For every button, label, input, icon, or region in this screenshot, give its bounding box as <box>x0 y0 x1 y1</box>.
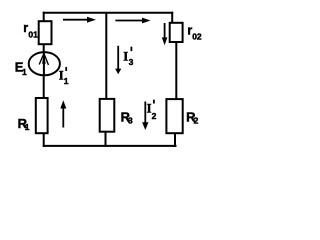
resistor R2 <box>166 99 182 133</box>
resistor r01 <box>39 21 52 44</box>
resistor R3 <box>100 99 115 132</box>
wire E1 to R1 <box>43 75 45 99</box>
wire r02 to R2 <box>175 42 177 100</box>
wire R3 to bottom rail <box>105 132 107 147</box>
current arrow top-right branch <box>115 20 143 22</box>
svg-text:1: 1 <box>64 76 69 86</box>
current arrow top-left branch <box>63 19 88 21</box>
svg-text:1: 1 <box>22 67 27 77</box>
svg-text:01: 01 <box>28 29 38 39</box>
wire top rail <box>43 12 174 14</box>
current arrow I2 (down) <box>144 102 146 124</box>
svg-text:3: 3 <box>128 115 133 125</box>
svg-text:I: I <box>123 50 128 64</box>
wire through E1 <box>43 52 45 75</box>
wire left rail top segment <box>43 12 45 22</box>
resistor r02 <box>170 23 183 42</box>
wire bottom rail <box>43 145 177 147</box>
EMF source E1 <box>29 52 60 75</box>
current arrow I1 (up, beside R1) <box>62 108 64 128</box>
wire right rail top corner <box>171 12 173 24</box>
E1 arrow head <box>42 53 46 64</box>
wire R2 to bottom rail <box>174 133 176 147</box>
resistor R1 <box>36 98 48 133</box>
wire r01 to E1 <box>43 44 45 53</box>
wire R1 to bottom rail <box>43 133 45 147</box>
wire middle branch upper <box>105 12 107 100</box>
svg-text:1: 1 <box>25 122 30 132</box>
svg-text:3: 3 <box>129 57 134 67</box>
svg-text:2: 2 <box>194 116 199 126</box>
svg-text:2: 2 <box>152 111 157 121</box>
current arrow I3 <box>117 46 119 70</box>
current arrow through r02 <box>164 23 166 39</box>
svg-text:02: 02 <box>192 32 202 42</box>
